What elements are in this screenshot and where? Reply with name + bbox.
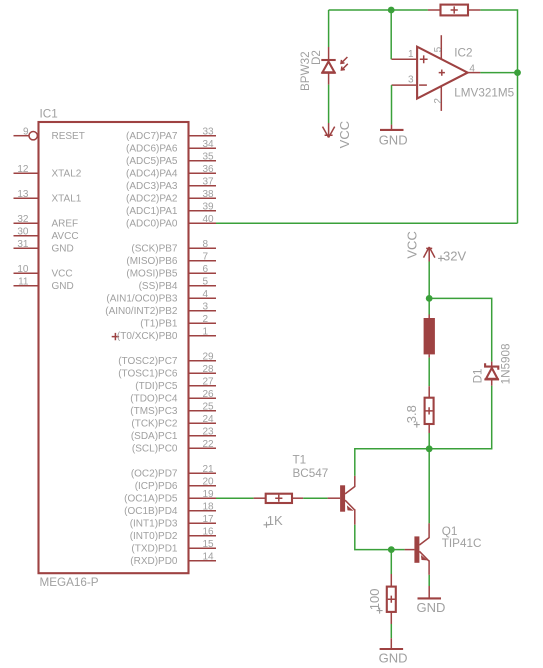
svg-text:VCC: VCC	[52, 269, 73, 280]
svg-text:2: 2	[203, 314, 209, 325]
IC2 plus mark	[420, 55, 428, 63]
IC1 pin 29 (TOSC2)PC7	[118, 351, 216, 367]
svg-text:(ADC1)PA1: (ADC1)PA1	[126, 206, 178, 217]
svg-text:21: 21	[203, 464, 215, 475]
wire top feedback left segment	[329, 9, 428, 11]
svg-text:(OC2)PD7: (OC2)PD7	[131, 469, 178, 480]
svg-text:3.8: 3.8	[404, 405, 419, 423]
svg-text:GND: GND	[379, 132, 408, 147]
wire load to resistor 3.8	[428, 358, 430, 387]
svg-text:(T0/XCK)PB0: (T0/XCK)PB0	[117, 331, 178, 342]
svg-text:8: 8	[203, 239, 209, 250]
resistor 1K	[254, 494, 304, 503]
load element (filled body)	[424, 315, 435, 358]
svg-text:35: 35	[203, 151, 215, 162]
IC1 pin 33 (ADC7)PA7	[126, 126, 216, 142]
IC1 pin 6 (MOSI)PB5	[126, 264, 216, 280]
svg-text:19: 19	[203, 489, 215, 500]
svg-text:16: 16	[203, 526, 215, 537]
IC2 pin 5 (V+)	[440, 35, 442, 59]
svg-text:20: 20	[203, 476, 215, 487]
supply VCC (down arrow) under D2	[323, 123, 335, 138]
svg-text:(ADC0)PA0: (ADC0)PA0	[126, 219, 178, 230]
junction emitter node	[388, 546, 395, 553]
svg-text:(INT1)PD3: (INT1)PD3	[130, 519, 178, 530]
svg-text:GND: GND	[52, 244, 74, 255]
svg-text:AREF: AREF	[52, 219, 79, 230]
svg-text:(TOSC1)PC6: (TOSC1)PC6	[118, 369, 178, 380]
IC1 pin 16 (INT0)PD2	[130, 526, 216, 542]
100 label origin cross	[377, 608, 383, 614]
wire -input down to GND	[391, 85, 393, 125]
svg-text:32: 32	[17, 214, 29, 225]
svg-text:37: 37	[203, 176, 215, 187]
32V label origin cross	[438, 255, 444, 261]
resistor R-feedback (no value shown)	[428, 5, 481, 16]
IC1 pin 21 (OC2)PD7	[131, 464, 216, 480]
wire photodiode top	[328, 10, 330, 47]
wire T1 emitter to base junction of Q1	[355, 525, 392, 550]
svg-text:31: 31	[17, 239, 29, 250]
svg-text:40: 40	[203, 214, 215, 225]
svg-text:(TXD)PD1: (TXD)PD1	[131, 544, 178, 555]
wire junction down to load	[428, 298, 430, 314]
svg-text:10: 10	[17, 264, 29, 275]
wire junction to Q1 base	[391, 549, 404, 551]
svg-text:1K: 1K	[267, 513, 283, 528]
transistor Q1 TIP41C	[405, 523, 430, 575]
svg-text:25: 25	[203, 401, 215, 412]
svg-text:9: 9	[23, 126, 29, 137]
svg-text:36: 36	[203, 164, 215, 175]
svg-text:100: 100	[367, 588, 382, 610]
svg-text:Q1: Q1	[442, 525, 458, 538]
svg-text:5: 5	[433, 46, 444, 52]
svg-text:XTAL1: XTAL1	[52, 194, 82, 205]
IC1 pin 32 AREF	[14, 214, 79, 230]
svg-text:GND: GND	[52, 281, 74, 292]
IC2 origin cross	[439, 70, 445, 76]
svg-text:2: 2	[433, 98, 444, 104]
ground GND at resistor 100	[380, 638, 404, 649]
svg-text:13: 13	[17, 189, 29, 200]
svg-text:(ADC5)PA5: (ADC5)PA5	[126, 156, 178, 167]
svg-text:1N5908: 1N5908	[500, 343, 513, 384]
svg-text:VCC: VCC	[337, 121, 352, 148]
3.8 label origin cross	[414, 422, 420, 428]
wire junction down to op-amp +input	[390, 10, 392, 59]
IC1 pin 28 (TOSC1)PC6	[118, 364, 216, 380]
svg-text:6: 6	[203, 264, 209, 275]
svg-text:11: 11	[18, 276, 29, 287]
IC1 pin 23 (SDA)PC1	[131, 426, 216, 442]
svg-text:(ADC4)PA4: (ADC4)PA4	[126, 169, 178, 180]
svg-text:4: 4	[469, 63, 475, 74]
svg-text:TIP41C: TIP41C	[442, 537, 482, 550]
svg-text:BC547: BC547	[293, 467, 329, 480]
IC1 pin 13 XTAL1	[14, 189, 82, 205]
svg-text:(TDI)PC5: (TDI)PC5	[135, 381, 178, 392]
IC1 pin 8 (SCK)PB7	[131, 239, 216, 255]
IC1 pin 2 (T1)PB1	[140, 314, 216, 330]
junction VCC node	[426, 295, 433, 302]
svg-text:(ADC6)PA6: (ADC6)PA6	[126, 144, 178, 155]
IC1 pin 27 (TDI)PC5	[135, 376, 216, 392]
resistor 100	[387, 574, 396, 624]
svg-text:RESET: RESET	[52, 131, 85, 142]
IC1 pin 39 (ADC1)PA1	[126, 201, 216, 217]
IC1 pin 10 VCC	[14, 264, 73, 280]
svg-text:38: 38	[203, 189, 215, 200]
svg-text:34: 34	[203, 139, 215, 150]
svg-text:22: 22	[203, 439, 215, 450]
junction top (feedback to +input)	[388, 7, 395, 14]
svg-text:GND: GND	[379, 650, 408, 665]
svg-text:(TDO)PC4: (TDO)PC4	[130, 394, 178, 405]
svg-text:(TCK)PC2: (TCK)PC2	[131, 419, 178, 430]
svg-text:15: 15	[203, 539, 215, 550]
svg-text:3: 3	[203, 301, 209, 312]
wire Q1 collector up to mid junction	[428, 449, 430, 524]
IC1 pin 15 (TXD)PD1	[131, 539, 216, 555]
IC1 pin 40 (ADC0)PA0	[126, 214, 216, 230]
svg-text:(SCK)PB7: (SCK)PB7	[131, 244, 178, 255]
IC1 pin 18 (OC1B)PD4	[124, 501, 216, 517]
resistor 3.8	[425, 386, 434, 433]
svg-text:MEGA16-P: MEGA16-P	[40, 576, 99, 589]
svg-text:24: 24	[203, 414, 215, 425]
wire D1 branch bottom	[429, 386, 492, 449]
svg-text:(T1)PB1: (T1)PB1	[140, 319, 178, 330]
svg-text:(ICP)PD6: (ICP)PD6	[135, 481, 178, 492]
wire resistor 3.8 to mid junction	[428, 433, 430, 449]
svg-text:29: 29	[203, 351, 215, 362]
svg-text:BPW32: BPW32	[299, 51, 312, 91]
junction output node	[514, 69, 521, 76]
svg-text:17: 17	[203, 514, 215, 525]
svg-text:3: 3	[408, 75, 414, 86]
svg-text:26: 26	[203, 389, 215, 400]
IC2 pin 2 (V-)	[440, 86, 442, 111]
wire photodiode to VCC	[328, 85, 330, 123]
wire junction to D1 branch top	[429, 298, 492, 361]
IC1 pin 25 (TMS)PC3	[130, 401, 216, 417]
wire VCC to top junction	[428, 262, 430, 299]
svg-text:4: 4	[203, 289, 209, 300]
svg-text:7: 7	[203, 251, 209, 262]
svg-text:(ADC2)PA2: (ADC2)PA2	[126, 194, 178, 205]
svg-text:(RXD)PD0: (RXD)PD0	[130, 556, 178, 567]
IC1 pin 7 (MISO)PB6	[126, 251, 216, 267]
IC2 pin 3 (-IN)	[392, 84, 417, 86]
svg-text:(AIN1/OC0)PB3: (AIN1/OC0)PB3	[106, 294, 178, 305]
svg-text:32V: 32V	[443, 249, 466, 264]
zener diode D1 1N5908	[484, 362, 499, 386]
IC1 pin 12 XTAL2	[14, 164, 82, 180]
IC1 pin 14 (RXD)PD0	[130, 551, 216, 567]
IC1 pin 31 GND	[14, 239, 74, 255]
IC1 pin 3 (AIN0/INT2)PB2	[105, 301, 216, 317]
wire op-amp output to right rail	[480, 72, 517, 74]
IC1 pin 17 (INT1)PD3	[130, 514, 216, 530]
ground GND at op-amp	[380, 125, 404, 130]
svg-text:LMV321M5: LMV321M5	[454, 86, 514, 99]
svg-text:(OC1A)PD5: (OC1A)PD5	[124, 494, 178, 505]
wire PA0 to right rail	[216, 222, 518, 224]
junction mid node	[426, 445, 433, 452]
1K label origin cross	[264, 522, 270, 528]
IC1 pin 30 AVCC	[14, 226, 79, 242]
svg-text:14: 14	[203, 551, 215, 562]
IC1 pin 20 (ICP)PD6	[135, 476, 216, 492]
svg-text:39: 39	[203, 201, 215, 212]
IC1 pin 9 RESET	[14, 126, 85, 142]
svg-text:GND: GND	[417, 600, 446, 615]
IC1 pin 19 (OC1A)PD5	[124, 489, 216, 505]
IC2 pin 4 (OUT)	[467, 72, 481, 74]
svg-text:(SS)PB4: (SS)PB4	[139, 281, 178, 292]
svg-text:(ADC3)PA3: (ADC3)PA3	[126, 181, 178, 192]
IC1 pin 26 (TDO)PC4	[130, 389, 216, 405]
svg-text:T1: T1	[293, 454, 307, 467]
svg-text:(TOSC2)PC7: (TOSC2)PC7	[118, 356, 178, 367]
svg-text:(SDA)PC1: (SDA)PC1	[131, 431, 178, 442]
wire emitter junction down to resistor 100	[390, 550, 392, 574]
svg-text:(TMS)PC3: (TMS)PC3	[130, 406, 178, 417]
wire top feedback right segment	[480, 10, 517, 73]
IC1 pin 4 (AIN1/OC0)PB3	[106, 289, 216, 305]
wire right rail down to PA0 row	[517, 73, 519, 224]
IC1 pin 36 (ADC4)PA4	[126, 164, 216, 180]
transistor T1 BC547	[328, 476, 355, 525]
IC1 pin 22 (SCL)PC0	[132, 439, 216, 455]
op-amp IC2 LMV321M5 triangle	[417, 47, 468, 99]
svg-text:D1: D1	[472, 368, 485, 383]
svg-text:1: 1	[408, 49, 414, 60]
svg-text:(ADC7)PA7: (ADC7)PA7	[126, 131, 178, 142]
svg-text:33: 33	[203, 126, 215, 137]
supply VCC 32V (up arrow)	[424, 247, 435, 262]
wire Q1 emitter down	[428, 575, 430, 586]
IC2 pin 1 (+IN)	[392, 58, 417, 60]
svg-text:XTAL2: XTAL2	[52, 169, 82, 180]
svg-text:12: 12	[17, 164, 29, 175]
wire PD5 to resistor 1K	[216, 497, 254, 499]
svg-text:IC1: IC1	[40, 108, 58, 121]
IC1 pin 11 GND	[14, 276, 74, 292]
wire resistor 100 to GND	[390, 624, 392, 638]
IC2 minus mark	[419, 84, 427, 86]
svg-text:(INT0)PD2: (INT0)PD2	[130, 531, 178, 542]
ground GND at Q1	[418, 586, 442, 598]
svg-text:1: 1	[203, 326, 209, 337]
wire mid junction left to T1 collector	[355, 449, 429, 476]
IC1 pin 38 (ADC2)PA2	[126, 189, 216, 205]
svg-text:(SCL)PC0: (SCL)PC0	[132, 444, 178, 455]
svg-text:(MOSI)PB5: (MOSI)PB5	[126, 269, 178, 280]
svg-text:18: 18	[203, 501, 215, 512]
IC1 MEGA16-P body	[39, 122, 189, 573]
svg-text:(OC1B)PD4: (OC1B)PD4	[124, 506, 178, 517]
svg-text:AVCC: AVCC	[52, 231, 79, 242]
svg-text:27: 27	[203, 376, 215, 387]
svg-text:VCC: VCC	[404, 231, 419, 258]
svg-text:30: 30	[17, 226, 29, 237]
svg-text:23: 23	[203, 426, 215, 437]
svg-text:(MISO)PB6: (MISO)PB6	[126, 256, 178, 267]
wire resistor 1K to T1 base	[303, 497, 327, 499]
IC1 pin 35 (ADC5)PA5	[126, 151, 216, 167]
IC1 pin 5 (SS)PB4	[139, 276, 216, 292]
IC1 origin cross	[112, 333, 119, 340]
photodiode D2 BPW32	[321, 47, 348, 85]
svg-text:5: 5	[203, 276, 209, 287]
IC1 pin 37 (ADC3)PA3	[126, 176, 216, 192]
svg-text:IC2: IC2	[454, 47, 472, 60]
IC1 pin 1 (T0/XCK)PB0	[117, 326, 216, 342]
svg-text:28: 28	[203, 364, 215, 375]
IC1 pin 34 (ADC6)PA6	[126, 139, 216, 155]
IC1 pin 24 (TCK)PC2	[131, 414, 216, 430]
svg-text:(AIN0/INT2)PB2: (AIN0/INT2)PB2	[105, 306, 178, 317]
